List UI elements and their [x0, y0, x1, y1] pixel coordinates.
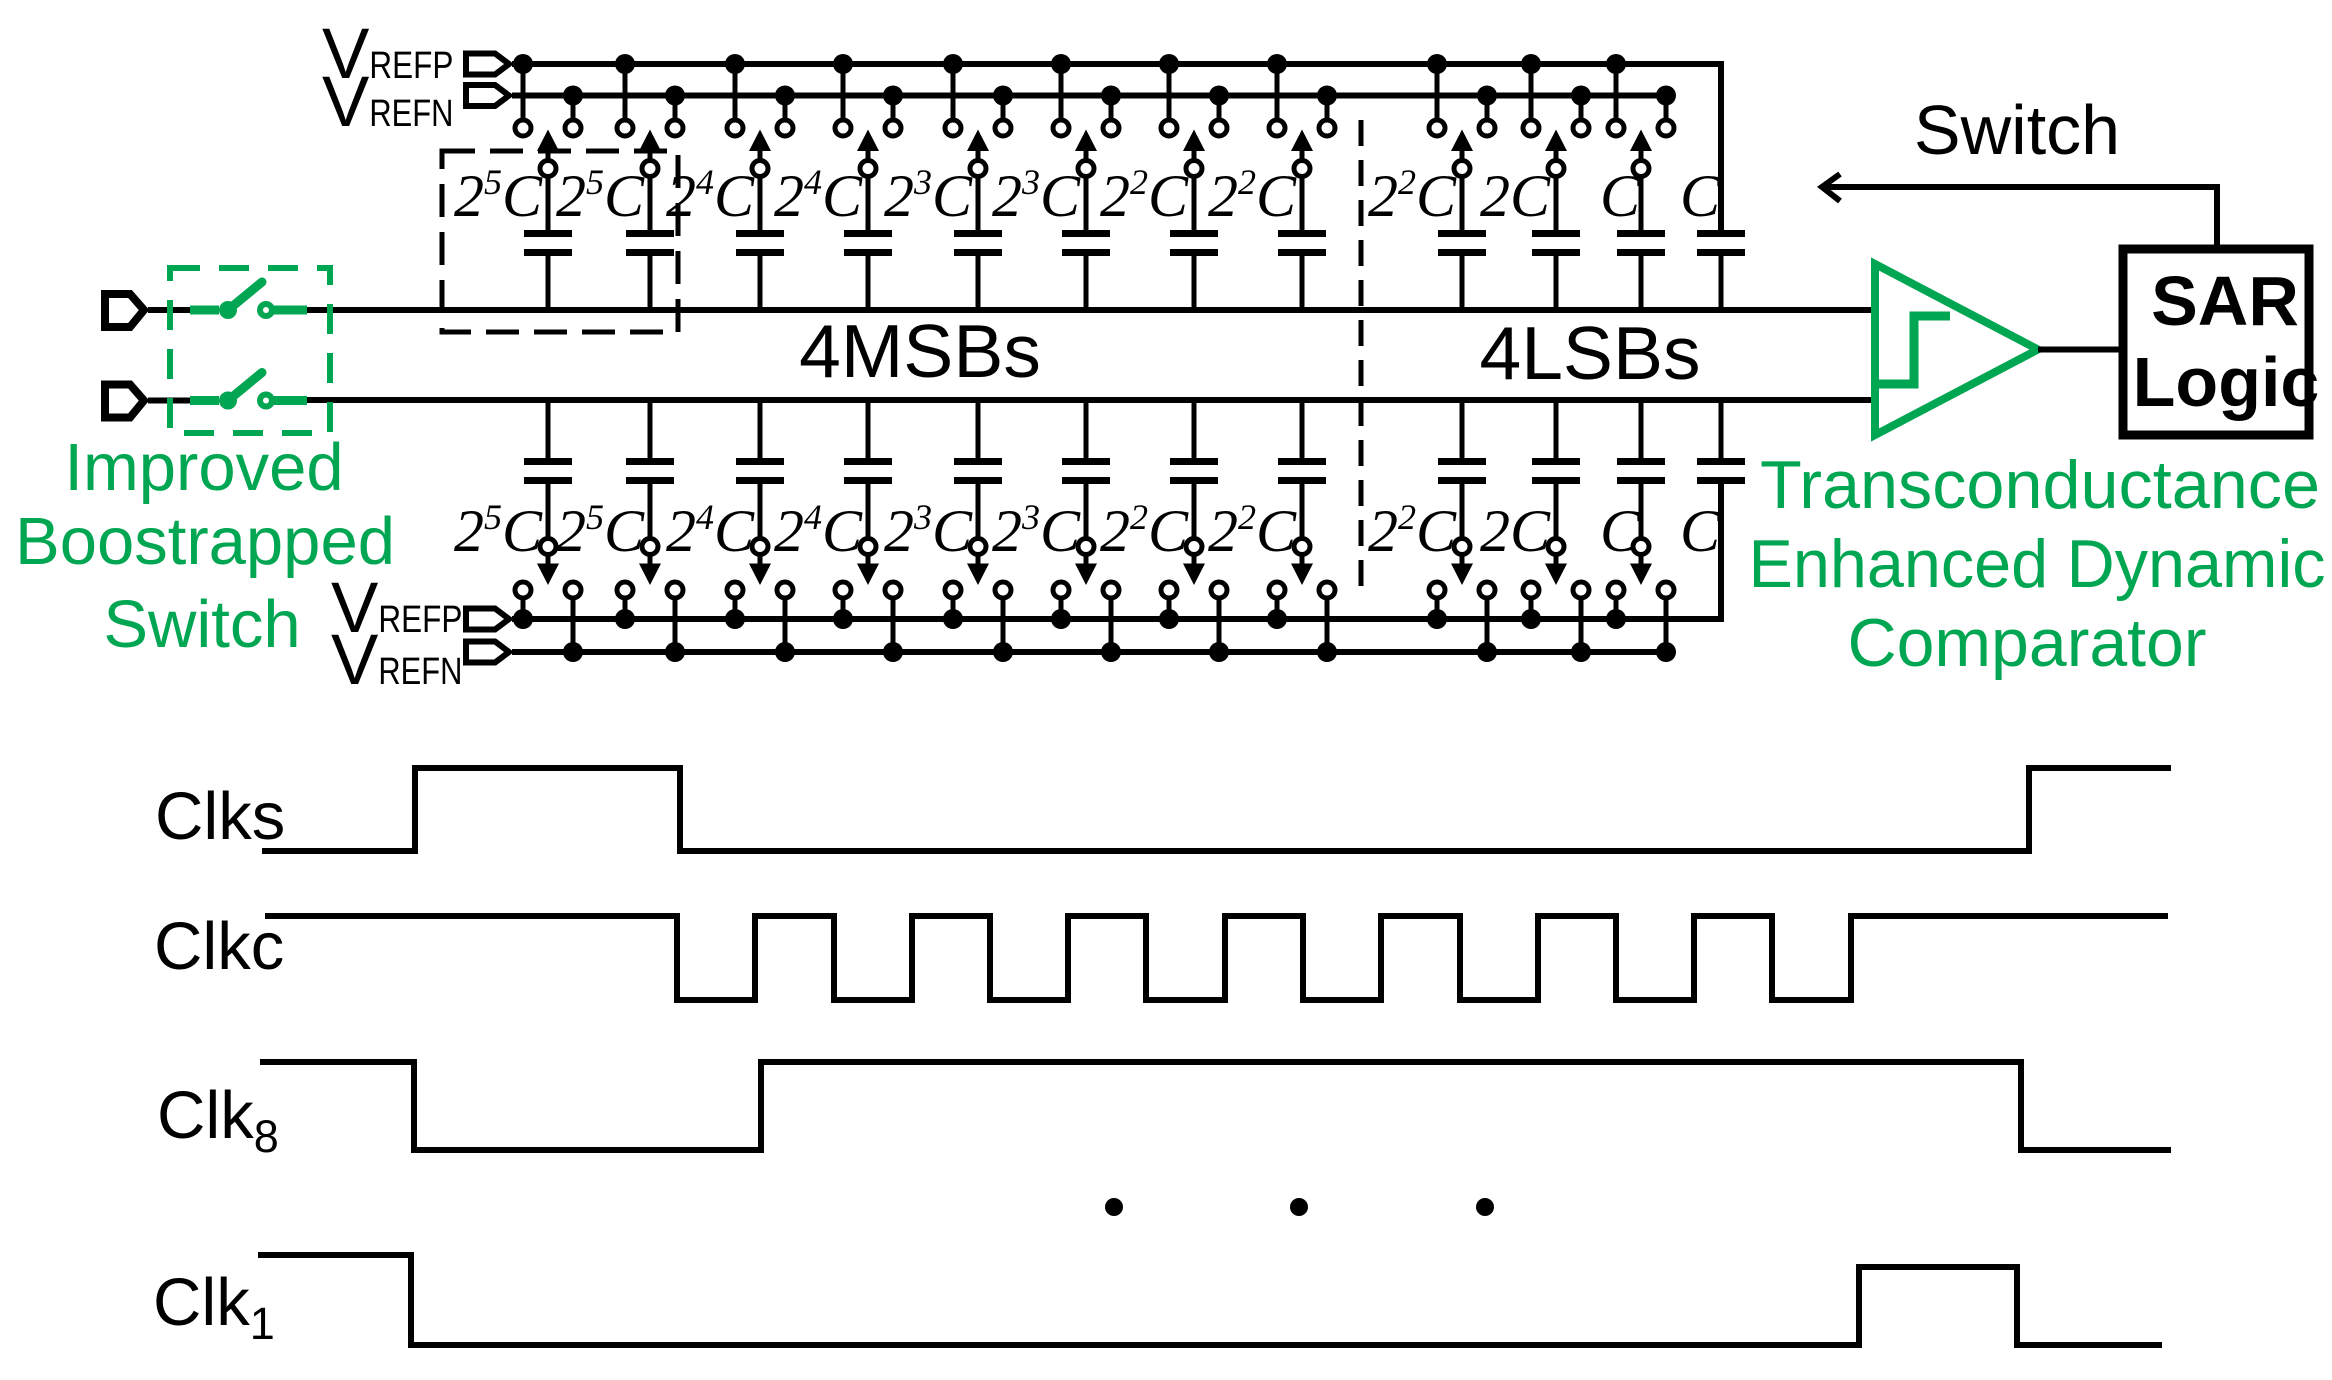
capacitor C (bottom DAC #12, tied to VREFP rail): [1697, 400, 1745, 484]
capacitor 2^5C (top DAC #1): [524, 176, 572, 311]
svg-text:Comparator: Comparator: [1847, 605, 2206, 681]
hysteresis symbol inside comparator: [1878, 316, 1950, 384]
wire VREFN rail (top DAC): [512, 93, 1666, 99]
ellipsis dots between Clk8 and Clk1: [1105, 1198, 1494, 1216]
switch SW8 bottom (selects VREFP/VREFN for 2^2C): [1267, 539, 1337, 663]
wire VREFN rail (bottom DAC): [512, 649, 1666, 655]
svg-text:Improved: Improved: [64, 430, 343, 505]
wire input VIN to switch: [148, 398, 196, 404]
capacitor 2^4C (top DAC #4): [844, 176, 892, 311]
capacitor 2^2C (top DAC #9): [1438, 176, 1486, 311]
capacitor C (top DAC #12, tied to VREFP rail): [1697, 230, 1745, 310]
svg-text:C: C: [1680, 163, 1721, 229]
waveform Clk1: [258, 1255, 2162, 1345]
switch SW8 top (selects VREFP/VREFN for 2^2C): [1267, 54, 1337, 177]
svg-text:Switch: Switch: [103, 587, 300, 662]
wire SAR Logic to switch-control arrow: [1822, 187, 2217, 245]
capacitor 2^2C (bottom DAC #9): [1438, 400, 1486, 540]
wire input VIP to switch: [148, 307, 196, 313]
capacitor 2^3C (top DAC #5): [954, 176, 1002, 311]
block SAR Logic U2: [2123, 249, 2309, 435]
switch SW3 bottom (selects VREFP/VREFN for 2^4C): [725, 539, 795, 663]
svg-text:C: C: [1680, 498, 1721, 564]
dashed box around split MSB capacitors (2^5C pair): [442, 151, 678, 332]
switch SW5 bottom (selects VREFP/VREFN for 2^3C): [943, 539, 1013, 663]
switch bootstrapped S2 (green, bottom input): [190, 373, 307, 410]
switch SW4 top (selects VREFP/VREFN for 2^4C): [833, 54, 903, 177]
port VREFN (bottom DAC input pin): [466, 642, 509, 663]
svg-text:4LSBs: 4LSBs: [1480, 311, 1701, 395]
capacitor 2^2C (bottom DAC #8): [1278, 400, 1326, 540]
svg-text:Clkc: Clkc: [154, 909, 284, 984]
capacitor 2^5C (bottom DAC #2): [626, 400, 674, 540]
wire VREFP rail (bottom DAC), bends up to last cap: [512, 482, 1721, 619]
waveform Clk8: [260, 1062, 2171, 1150]
switch SW7 bottom (selects VREFP/VREFN for 2^2C): [1159, 539, 1229, 663]
capacitor 2^3C (top DAC #6): [1062, 176, 1110, 311]
svg-text:Logic: Logic: [2133, 343, 2320, 421]
switch SW2 bottom (selects VREFP/VREFN for 2^5C): [615, 539, 685, 663]
capacitor 2^4C (top DAC #3): [736, 176, 784, 311]
switch SW5 top (selects VREFP/VREFN for 2^3C): [943, 54, 1013, 177]
capacitor C (top DAC #11): [1617, 176, 1665, 311]
capacitor 2^3C (bottom DAC #6): [1062, 400, 1110, 540]
svg-text:Transconductance: Transconductance: [1760, 447, 2320, 523]
switch SW4 bottom (selects VREFP/VREFN for 2^4C): [833, 539, 903, 663]
capacitor 2^5C (top DAC #2): [626, 176, 674, 311]
svg-text:4MSBs: 4MSBs: [799, 309, 1041, 393]
switch SW1 top (selects VREFP/VREFN for 2^5C): [513, 54, 583, 177]
switch SW10 top (selects VREFP/VREFN for 2C): [1521, 54, 1591, 177]
switch SW11 top (selects VREFP/VREFN for C): [1606, 54, 1676, 177]
capacitor 2^4C (bottom DAC #3): [736, 400, 784, 540]
svg-text:C: C: [1600, 498, 1641, 564]
switch SW2 top (selects VREFP/VREFN for 2^5C): [615, 54, 685, 177]
capacitor 2^2C (bottom DAC #7): [1170, 400, 1218, 540]
switch SW3 top (selects VREFP/VREFN for 2^4C): [725, 54, 795, 177]
port input VIN (left, to bottom DAC): [105, 385, 144, 418]
capacitor 2^2C (top DAC #7): [1170, 176, 1218, 311]
svg-text:Boostrapped: Boostrapped: [15, 504, 395, 579]
op-amp comparator U1 (green triangle): [1875, 264, 2038, 435]
capacitor 2^3C (bottom DAC #5): [954, 400, 1002, 540]
wire comparator output to SAR Logic: [2038, 347, 2123, 353]
svg-text:Clks: Clks: [155, 779, 285, 854]
waveform Clkc: [265, 916, 2168, 1000]
capacitor 2C (bottom DAC #10): [1532, 400, 1580, 540]
arrowhead switch-control (points left): [1822, 174, 1840, 201]
switch SW9 bottom (selects VREFP/VREFN for 2^2C): [1427, 539, 1497, 663]
dashed separator between 4MSBs and 4LSBs sections: [1359, 120, 1364, 600]
svg-text:2C: 2C: [1480, 163, 1551, 229]
capacitor 2^4C (bottom DAC #4): [844, 400, 892, 540]
capacitor C (bottom DAC #11): [1617, 400, 1665, 540]
svg-text:2C: 2C: [1480, 498, 1551, 564]
svg-text:C: C: [1600, 163, 1641, 229]
port VREFP (bottom DAC input pin): [466, 609, 509, 630]
wire VREFP rail (top DAC), bends down to last cap: [512, 64, 1721, 232]
switch SW6 bottom (selects VREFP/VREFN for 2^3C): [1051, 539, 1121, 663]
port VREFN (top DAC input pin): [466, 85, 509, 106]
switch SW10 bottom (selects VREFP/VREFN for 2C): [1521, 539, 1591, 663]
svg-text:SAR: SAR: [2151, 262, 2299, 340]
switch SW9 top (selects VREFP/VREFN for 2^2C): [1427, 54, 1497, 177]
waveform Clks: [262, 768, 2171, 851]
switch SW7 top (selects VREFP/VREFN for 2^2C): [1159, 54, 1229, 177]
switch SW1 bottom (selects VREFP/VREFN for 2^5C): [513, 539, 583, 663]
green dashed box around bootstrapped switches: [170, 268, 330, 433]
capacitor 2^5C (bottom DAC #1): [524, 400, 572, 540]
capacitor 2^2C (top DAC #8): [1278, 176, 1326, 311]
wire common rail (bottom DAC) to comparator - input: [300, 397, 1877, 403]
capacitor 2C (top DAC #10): [1532, 176, 1580, 311]
port VREFP (top DAC input pin): [466, 54, 509, 75]
port input VIP (left, to top DAC): [105, 294, 144, 327]
switch SW6 top (selects VREFP/VREFN for 2^3C): [1051, 54, 1121, 177]
svg-text:Enhanced Dynamic: Enhanced Dynamic: [1749, 526, 2326, 602]
switch SW11 bottom (selects VREFP/VREFN for C): [1606, 539, 1676, 663]
svg-text:Switch: Switch: [1914, 91, 2120, 169]
switch bootstrapped S1 (green, top input): [190, 282, 307, 319]
wire common top-plate rail (top DAC) to comparator + input: [300, 307, 1877, 313]
